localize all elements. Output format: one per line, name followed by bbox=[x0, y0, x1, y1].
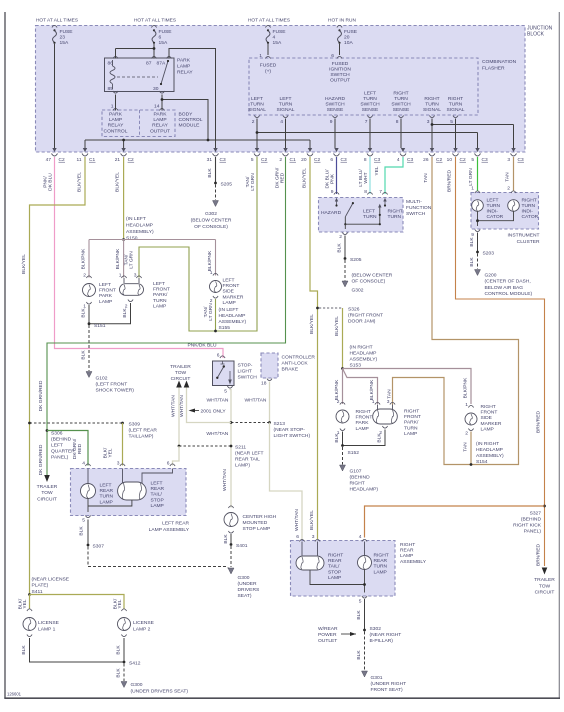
svg-text:BLK/YEL: BLK/YEL bbox=[309, 314, 315, 334]
wire BLK S412 to G300 dashed bbox=[123, 664, 125, 682]
wire 87A to 31C3 rail bbox=[169, 49, 216, 149]
svg-text:5: 5 bbox=[82, 518, 85, 524]
svg-text:S152: S152 bbox=[348, 450, 360, 456]
svg-text:BLK: BLK bbox=[79, 526, 85, 536]
svg-text:BLOCK: BLOCK bbox=[527, 32, 545, 38]
svg-text:BLK: BLK bbox=[81, 350, 87, 360]
svg-text:MODULE: MODULE bbox=[179, 123, 201, 129]
right turn indicator lamp bbox=[508, 200, 520, 212]
svg-text:RED: RED bbox=[77, 443, 83, 454]
wire WHT/TAN CAB pin18 to S213 bbox=[269, 382, 271, 422]
wire BLK 31C3 to S205 bbox=[215, 157, 217, 182]
svg-text:G302: G302 bbox=[352, 288, 364, 294]
svg-text:TRAILER: TRAILER bbox=[534, 577, 555, 583]
splice S306 bbox=[46, 429, 49, 432]
wire BLK cluster pin9 to S203 bbox=[477, 233, 479, 252]
svg-text:3: 3 bbox=[312, 534, 315, 540]
svg-text:FRONT: FRONT bbox=[404, 414, 421, 420]
wire WHT/TAN S213 to right rear stop bbox=[270, 423, 303, 542]
svg-text:LAMP: LAMP bbox=[328, 575, 341, 581]
svg-text:8: 8 bbox=[364, 189, 367, 195]
svg-text:PLATE): PLATE) bbox=[32, 583, 49, 589]
svg-text:1: 1 bbox=[465, 402, 468, 408]
svg-text:HOT AT ALL TIMES: HOT AT ALL TIMES bbox=[36, 18, 78, 24]
svg-text:5: 5 bbox=[471, 157, 474, 163]
svg-text:BLK/PNK: BLK/PNK bbox=[369, 379, 375, 400]
svg-text:FRONT: FRONT bbox=[153, 287, 170, 293]
svg-text:RELAY: RELAY bbox=[177, 70, 193, 76]
svg-text:2: 2 bbox=[507, 186, 510, 192]
wire TAN 26C2 to right front turn bbox=[393, 157, 519, 465]
wire BLKYEL 20C2 right park feed bbox=[310, 157, 318, 539]
fuse 4 15A bbox=[265, 25, 270, 27]
svg-text:BLK/YEL: BLK/YEL bbox=[115, 172, 121, 192]
svg-text:LAMP: LAMP bbox=[100, 499, 113, 505]
relay switch arm 87A-30 bbox=[161, 61, 168, 84]
svg-text:S203: S203 bbox=[483, 251, 495, 257]
svg-text:PARK/: PARK/ bbox=[153, 292, 168, 298]
svg-text:STOP: STOP bbox=[328, 569, 341, 575]
svg-text:8: 8 bbox=[396, 119, 399, 125]
junction dot fuse6 rail bbox=[153, 47, 156, 50]
svg-text:(BELOW CENTER: (BELOW CENTER bbox=[352, 273, 393, 279]
svg-text:BLK: BLK bbox=[116, 668, 122, 678]
svg-text:126601: 126601 bbox=[7, 692, 22, 697]
fuse 6 15A bbox=[151, 25, 156, 27]
svg-text:(+): (+) bbox=[265, 69, 271, 75]
svg-text:TURN: TURN bbox=[100, 494, 114, 500]
svg-text:LEFT: LEFT bbox=[153, 281, 165, 287]
svg-text:S211: S211 bbox=[235, 445, 246, 451]
svg-text:HOT IN RUN: HOT IN RUN bbox=[328, 18, 356, 24]
svg-text:LT GRN: LT GRN bbox=[129, 251, 135, 269]
svg-text:1: 1 bbox=[210, 270, 213, 276]
svg-text:TURN: TURN bbox=[250, 102, 264, 108]
ground G301 bbox=[362, 671, 368, 677]
svg-text:(IN LEFT: (IN LEFT bbox=[219, 307, 239, 313]
combination flasher bbox=[249, 58, 478, 115]
svg-text:WHT/TAN: WHT/TAN bbox=[294, 509, 300, 531]
splice S327 bbox=[543, 505, 546, 508]
svg-text:SWITCH: SWITCH bbox=[360, 102, 380, 108]
wire BLK right front lamps to S152 bbox=[342, 432, 344, 446]
svg-text:BLK/PNK: BLK/PNK bbox=[81, 248, 87, 269]
svg-text:BLK: BLK bbox=[337, 243, 343, 253]
svg-text:4: 4 bbox=[359, 534, 362, 540]
junction dot rail-pin30 bbox=[207, 139, 210, 142]
svg-text:6: 6 bbox=[159, 35, 162, 41]
svg-text:RIGHT: RIGHT bbox=[388, 209, 403, 215]
svg-text:BLK: BLK bbox=[122, 308, 128, 318]
svg-text:10A: 10A bbox=[344, 40, 353, 46]
right turn indicator feed y124.5 bbox=[432, 124, 514, 126]
left rear turn lamp bbox=[87, 469, 89, 484]
svg-text:HOT AT ALL TIMES: HOT AT ALL TIMES bbox=[134, 18, 176, 24]
svg-text:S205: S205 bbox=[221, 182, 233, 188]
multi-function switch bbox=[319, 198, 404, 233]
svg-text:CONTROLLER: CONTROLLER bbox=[282, 355, 316, 361]
svg-text:STOP-: STOP- bbox=[238, 363, 253, 369]
svg-text:S213: S213 bbox=[274, 421, 286, 427]
svg-text:ASSEMBLY: ASSEMBLY bbox=[400, 559, 427, 565]
wire relay pin85 to BCM pin1 bbox=[115, 95, 117, 111]
svg-text:TAIL/: TAIL/ bbox=[328, 564, 340, 570]
svg-text:BLK: BLK bbox=[207, 168, 213, 178]
wire BLK S205 to G302 dashed bbox=[215, 185, 217, 201]
svg-text:RIGHT: RIGHT bbox=[424, 96, 439, 102]
svg-text:SWITCH: SWITCH bbox=[406, 211, 426, 217]
relay coil bbox=[110, 66, 115, 84]
wire BLK to G302 dashed below MFS bbox=[344, 260, 346, 281]
splice S151 bbox=[88, 322, 91, 325]
ground G300 license bbox=[121, 682, 127, 688]
svg-text:S307: S307 bbox=[93, 544, 105, 550]
svg-text:FUSED: FUSED bbox=[332, 61, 349, 67]
svg-text:4: 4 bbox=[82, 461, 85, 467]
junction block exit pins bbox=[52, 148, 56, 152]
center high mounted stop lamp bbox=[228, 506, 233, 508]
svg-text:ASSEMBLY): ASSEMBLY) bbox=[126, 229, 154, 235]
svg-text:CIRCUIT: CIRCUIT bbox=[535, 590, 555, 596]
svg-text:LEFT REAR: LEFT REAR bbox=[162, 521, 189, 527]
svg-text:TURN: TURN bbox=[425, 102, 439, 108]
svg-text:BLK: BLK bbox=[81, 308, 87, 318]
splice S309 dashed link bbox=[30, 422, 123, 424]
svg-text:(BELOW CENTER: (BELOW CENTER bbox=[191, 217, 232, 223]
svg-text:LAMP 1: LAMP 1 bbox=[38, 627, 56, 633]
svg-text:4: 4 bbox=[280, 119, 283, 125]
svg-text:87A: 87A bbox=[157, 61, 166, 67]
svg-text:RIGHT: RIGHT bbox=[448, 96, 463, 102]
svg-text:BLK: BLK bbox=[469, 257, 475, 267]
wire BLK left rear pin5 to S307 bbox=[87, 520, 89, 545]
wire DKGRN/RED 2C1 to left rear turn bbox=[47, 157, 286, 475]
svg-text:OF CONSOLE): OF CONSOLE) bbox=[352, 279, 386, 285]
svg-text:10: 10 bbox=[447, 157, 453, 163]
svg-text:TAN: TAN bbox=[463, 442, 469, 452]
svg-text:WHT/TAN: WHT/TAN bbox=[179, 395, 185, 417]
svg-text:9: 9 bbox=[330, 119, 333, 125]
svg-text:LAMP): LAMP) bbox=[235, 463, 250, 469]
svg-text:CATOR: CATOR bbox=[487, 214, 504, 220]
svg-text:LT GRN: LT GRN bbox=[468, 168, 474, 186]
svg-text:INSTRUMENT: INSTRUMENT bbox=[507, 233, 539, 239]
svg-text:LAMP: LAMP bbox=[356, 426, 369, 432]
flasher pin 6 stub bbox=[339, 44, 341, 55]
svg-text:LT GRN: LT GRN bbox=[208, 303, 214, 321]
wire BLK center stop to S401 bbox=[230, 534, 232, 544]
svg-text:REAR: REAR bbox=[328, 558, 342, 564]
left turn indicator feed y132.5 bbox=[257, 132, 478, 134]
junction dot pin30 bbox=[161, 98, 164, 101]
svg-text:S153: S153 bbox=[350, 363, 362, 369]
wire BLKYEL S309 to left rear tail pin3 bbox=[122, 423, 124, 466]
svg-text:LEFT: LEFT bbox=[487, 198, 499, 204]
svg-text:G300: G300 bbox=[131, 682, 143, 688]
svg-text:15A: 15A bbox=[159, 40, 168, 46]
svg-text:WHT/TAN: WHT/TAN bbox=[171, 395, 177, 417]
svg-text:LEFT: LEFT bbox=[51, 443, 63, 449]
svg-text:TAILLAMP): TAILLAMP) bbox=[129, 434, 154, 440]
svg-text:2: 2 bbox=[465, 431, 468, 437]
svg-text:COMBINATION: COMBINATION bbox=[482, 59, 517, 65]
relay pin cups bbox=[113, 56, 118, 58]
svg-text:S302: S302 bbox=[370, 626, 382, 632]
svg-text:(UNDER: (UNDER bbox=[238, 581, 257, 587]
svg-text:LAMP: LAMP bbox=[374, 569, 387, 575]
svg-text:LAMP: LAMP bbox=[177, 64, 190, 70]
svg-text:SENSE: SENSE bbox=[327, 107, 344, 113]
svg-text:LEFT: LEFT bbox=[363, 209, 375, 215]
svg-text:(CENTER OF DASH,: (CENTER OF DASH, bbox=[485, 279, 531, 285]
svg-text:6: 6 bbox=[217, 353, 220, 359]
svg-text:S151: S151 bbox=[94, 323, 106, 329]
wire BLKYEL S326 to S153 bbox=[342, 308, 344, 369]
svg-text:BLK: BLK bbox=[377, 433, 383, 443]
svg-text:G102: G102 bbox=[96, 376, 108, 382]
flasher pin 1 stub bbox=[267, 44, 269, 55]
svg-text:3: 3 bbox=[387, 399, 390, 405]
svg-text:LIGHT SWITCH): LIGHT SWITCH) bbox=[274, 433, 311, 439]
svg-text:MULTI-: MULTI- bbox=[406, 199, 422, 205]
svg-text:SIGNAL: SIGNAL bbox=[277, 107, 295, 113]
svg-text:OF CONSOLE): OF CONSOLE) bbox=[194, 224, 228, 230]
svg-text:FRONT: FRONT bbox=[356, 415, 373, 421]
svg-text:2: 2 bbox=[252, 119, 255, 125]
wire BLK MFS pin2 to S205 bbox=[344, 236, 346, 258]
svg-text:STOP LAMP: STOP LAMP bbox=[243, 526, 271, 532]
svg-text:(BEHIND: (BEHIND bbox=[350, 475, 371, 481]
svg-text:BLK/PNK: BLK/PNK bbox=[115, 248, 121, 269]
svg-text:INDI-: INDI- bbox=[487, 209, 499, 215]
svg-text:OUTPUT: OUTPUT bbox=[150, 128, 170, 134]
splice S302 w/rear power outlet bbox=[363, 629, 366, 632]
svg-text:CLUSTER: CLUSTER bbox=[517, 239, 540, 245]
svg-text:TOW: TOW bbox=[41, 490, 53, 496]
svg-text:TURN: TURN bbox=[363, 214, 377, 220]
svg-text:TURN: TURN bbox=[487, 203, 501, 209]
svg-text:5: 5 bbox=[359, 599, 362, 605]
svg-text:PARK: PARK bbox=[109, 112, 123, 118]
wire BLKYEL 11C1 license feed bbox=[30, 157, 86, 594]
svg-text:S150: S150 bbox=[126, 236, 138, 242]
wire BLK S401 to G300 dashed bbox=[230, 546, 232, 567]
wire PNK/DKBLU 47C2 to stop light switch bbox=[55, 157, 224, 358]
svg-text:LAMP: LAMP bbox=[153, 117, 166, 123]
svg-text:21: 21 bbox=[115, 157, 121, 163]
wire TAN side marker to S154 bbox=[470, 432, 472, 465]
svg-text:RELAY: RELAY bbox=[108, 123, 124, 129]
svg-text:HEADLAMP: HEADLAMP bbox=[219, 313, 246, 319]
svg-text:CENTER HIGH: CENTER HIGH bbox=[243, 514, 277, 520]
svg-text:26: 26 bbox=[423, 157, 429, 163]
svg-text:FUSE: FUSE bbox=[273, 29, 287, 35]
controller anti-lock brake bbox=[261, 353, 278, 378]
svg-text:(IN RIGHT: (IN RIGHT bbox=[350, 345, 373, 351]
svg-text:LAMP: LAMP bbox=[151, 503, 164, 509]
svg-text:(NEAR STOP-: (NEAR STOP- bbox=[274, 427, 306, 433]
svg-text:5: 5 bbox=[224, 389, 227, 395]
svg-text:HEADLAMP: HEADLAMP bbox=[350, 351, 377, 357]
svg-text:YEL: YEL bbox=[374, 166, 380, 176]
svg-text:CONTROL MODULE): CONTROL MODULE) bbox=[485, 291, 533, 297]
svg-text:6: 6 bbox=[167, 461, 170, 467]
svg-text:(IN RIGHT: (IN RIGHT bbox=[476, 441, 499, 447]
svg-text:LEFT: LEFT bbox=[151, 481, 163, 487]
svg-text:S326: S326 bbox=[348, 307, 360, 313]
ground G107 bbox=[340, 465, 346, 471]
svg-text:LEFT: LEFT bbox=[364, 91, 376, 97]
park lamp relay K1 bbox=[105, 58, 175, 92]
svg-text:PANEL): PANEL) bbox=[524, 529, 542, 535]
svg-text:FUSED: FUSED bbox=[260, 63, 277, 69]
svg-text:TOW: TOW bbox=[539, 583, 551, 589]
svg-text:LEFT: LEFT bbox=[280, 96, 292, 102]
svg-text:WHT/TAN: WHT/TAN bbox=[207, 398, 229, 404]
svg-text:G107: G107 bbox=[350, 469, 362, 475]
svg-text:15A: 15A bbox=[273, 40, 282, 46]
svg-text:TURN: TURN bbox=[522, 203, 536, 209]
wire BRN/RED S327 to right rear turn pin4 bbox=[365, 506, 545, 538]
splice S205 below MFS bbox=[344, 257, 347, 260]
svg-text:7: 7 bbox=[365, 119, 368, 125]
svg-text:PARK: PARK bbox=[177, 58, 191, 64]
svg-text:TURN: TURN bbox=[363, 96, 377, 102]
ground G300 center bbox=[228, 568, 234, 574]
svg-text:1: 1 bbox=[111, 104, 114, 110]
svg-text:TURN: TURN bbox=[374, 564, 388, 570]
svg-text:(UNDER RIGHT: (UNDER RIGHT bbox=[371, 681, 407, 687]
svg-text:(LEFT REAR: (LEFT REAR bbox=[129, 428, 158, 434]
flasher pin stubs and numbers bbox=[254, 116, 259, 118]
svg-text:FUSE: FUSE bbox=[60, 29, 74, 35]
svg-text:MARKER: MARKER bbox=[223, 294, 244, 300]
svg-text:RIGHT: RIGHT bbox=[374, 553, 389, 559]
svg-text:LICENSE: LICENSE bbox=[38, 620, 60, 626]
svg-text:(UNDER DRIVERS SEAT): (UNDER DRIVERS SEAT) bbox=[131, 689, 189, 695]
svg-text:YEL: YEL bbox=[117, 599, 123, 609]
svg-text:LIGHT: LIGHT bbox=[238, 368, 252, 374]
svg-text:G302: G302 bbox=[205, 211, 217, 217]
svg-text:BLK: BLK bbox=[223, 534, 229, 544]
wire BLKYEL 21C2 to S150 bbox=[123, 157, 125, 238]
instrument cluster bbox=[471, 193, 539, 230]
svg-text:SIDE: SIDE bbox=[481, 415, 493, 421]
svg-text:LICENSE: LICENSE bbox=[133, 620, 155, 626]
license lamp 2 bbox=[121, 609, 126, 611]
wire DKBLU/PNK 6C3 to MFS pin9 bbox=[336, 157, 338, 194]
svg-text:DOOR JAM): DOOR JAM) bbox=[348, 319, 376, 325]
splice S152 bbox=[341, 444, 344, 447]
svg-text:RIGHT: RIGHT bbox=[400, 542, 415, 548]
svg-text:S154: S154 bbox=[476, 459, 488, 465]
splice S213 dashed link bbox=[231, 422, 270, 424]
svg-text:2: 2 bbox=[83, 273, 86, 279]
svg-text:WHT: WHT bbox=[363, 172, 369, 183]
svg-text:FRONT: FRONT bbox=[223, 283, 240, 289]
svg-text:PARK: PARK bbox=[154, 112, 168, 118]
svg-text:RIGHT: RIGHT bbox=[481, 404, 496, 410]
svg-text:FUSE: FUSE bbox=[344, 29, 358, 35]
svg-text:FRONT: FRONT bbox=[99, 288, 116, 294]
svg-text:RIGHT: RIGHT bbox=[522, 198, 537, 204]
svg-text:20: 20 bbox=[344, 35, 350, 41]
svg-text:3: 3 bbox=[427, 119, 430, 125]
svg-text:BLK/PNK: BLK/PNK bbox=[334, 379, 340, 400]
svg-text:RIGHT KICK: RIGHT KICK bbox=[513, 523, 542, 529]
svg-text:TAN: TAN bbox=[505, 172, 511, 182]
wire relay pin30 branch bbox=[161, 95, 163, 111]
wire TAN 3C3 to cluster pin2 bbox=[513, 157, 515, 191]
svg-text:BLK: BLK bbox=[21, 645, 27, 655]
svg-text:BLK/YEL: BLK/YEL bbox=[309, 510, 315, 530]
svg-text:(IN LEFT: (IN LEFT bbox=[126, 216, 146, 222]
splice S211 dashed link bbox=[179, 445, 231, 447]
svg-text:DK BLU: DK BLU bbox=[48, 173, 54, 191]
wire fuse6 down and rail to relay 86/87 bbox=[153, 44, 155, 59]
svg-text:CONTROL: CONTROL bbox=[104, 128, 128, 134]
svg-text:2: 2 bbox=[210, 298, 213, 304]
svg-text:LAMP: LAMP bbox=[223, 300, 236, 306]
svg-text:30: 30 bbox=[153, 86, 159, 92]
svg-text:TURN: TURN bbox=[404, 425, 418, 431]
svg-text:3: 3 bbox=[507, 157, 510, 163]
svg-text:ASSEMBLY): ASSEMBLY) bbox=[350, 357, 378, 363]
svg-text:TRAILER: TRAILER bbox=[37, 484, 58, 490]
wire BLK S152 to G107 dashed bbox=[342, 447, 344, 465]
svg-text:SENSE: SENSE bbox=[393, 107, 410, 113]
wire WHT/TAN S211 to left rear stop pin6 bbox=[173, 446, 180, 466]
svg-text:WHT/TAN: WHT/TAN bbox=[222, 469, 228, 491]
svg-text:BLK/YEL: BLK/YEL bbox=[302, 168, 308, 188]
svg-text:PANEL): PANEL) bbox=[51, 455, 69, 461]
license lamp 1 bbox=[27, 609, 32, 611]
svg-text:SWITCH: SWITCH bbox=[330, 72, 350, 78]
svg-text:9: 9 bbox=[331, 189, 334, 195]
svg-text:4: 4 bbox=[273, 35, 276, 41]
svg-text:LEFT: LEFT bbox=[251, 96, 263, 102]
junction dot rail-21C2 bbox=[122, 139, 125, 142]
page frame bbox=[4, 12, 6, 698]
2001 only note bbox=[189, 409, 196, 413]
svg-text:LAMP: LAMP bbox=[481, 426, 494, 432]
svg-text:POWER: POWER bbox=[318, 632, 337, 638]
svg-text:CIRCUIT: CIRCUIT bbox=[37, 496, 57, 502]
svg-text:STOP: STOP bbox=[151, 497, 164, 503]
svg-text:(NEAR LEFT: (NEAR LEFT bbox=[235, 451, 264, 457]
svg-text:RIGHT: RIGHT bbox=[404, 409, 419, 415]
svg-text:OUTLET: OUTLET bbox=[318, 638, 337, 644]
wire BLK/PNK S153 to park lamps bbox=[342, 369, 344, 405]
svg-text:18: 18 bbox=[261, 381, 267, 387]
svg-text:TURN: TURN bbox=[394, 96, 408, 102]
wire BLK/PNK S150 rail bbox=[89, 239, 216, 241]
svg-text:2: 2 bbox=[339, 234, 342, 240]
svg-text:S401: S401 bbox=[236, 543, 248, 549]
svg-text:LAMP: LAMP bbox=[99, 299, 112, 305]
wire WHT/TAN trailer 2001 only bbox=[187, 388, 232, 423]
wire LTGRN 5C3 to cluster pin1 bbox=[477, 157, 479, 191]
svg-text:BLK/PNK: BLK/PNK bbox=[463, 377, 469, 398]
svg-text:FLASHER: FLASHER bbox=[482, 66, 505, 72]
relay internal dashed link bbox=[117, 76, 158, 78]
svg-text:(RIGHT FRONT: (RIGHT FRONT bbox=[348, 313, 383, 319]
svg-text:MOUNTED: MOUNTED bbox=[243, 520, 268, 526]
svg-text:TAN: TAN bbox=[387, 389, 393, 399]
trailer tow arrow right bbox=[542, 568, 548, 575]
wire BLK S302 to G301 dashed bbox=[364, 632, 366, 671]
wire WHT/TAN stop switch output bbox=[230, 390, 232, 508]
